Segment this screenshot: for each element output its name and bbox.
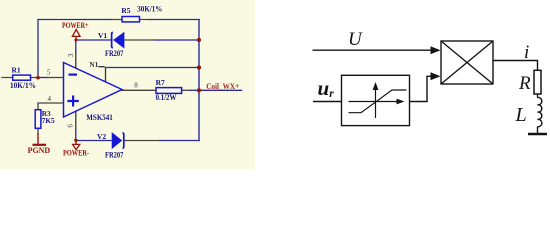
power ground PGND <box>37 133 39 144</box>
junction N1 net / right bus <box>197 65 201 69</box>
x axis arrowhead <box>397 99 405 105</box>
svg-text:5: 5 <box>47 69 51 77</box>
resistor R (right diagram) <box>534 70 541 94</box>
wire: coil bottom to ground <box>537 127 539 134</box>
pin stub: op-amp -IN pin 5 <box>47 77 64 79</box>
resistor R5 <box>122 17 140 22</box>
op-amp minus symbol <box>69 73 78 75</box>
wire: R3 bottom to ground <box>37 128 39 133</box>
svg-text:R: R <box>518 73 531 94</box>
pin stub: op-amp OUT pin 8 <box>122 89 156 91</box>
wire: V1 clamp net <box>76 39 112 41</box>
svg-text:10K/1%: 10K/1% <box>10 81 36 90</box>
arrowhead U into multiplier <box>431 46 441 54</box>
svg-text:3: 3 <box>67 53 75 57</box>
svg-text:MSK541: MSK541 <box>86 113 113 122</box>
wire: V2 net <box>76 140 111 142</box>
wire: output stub to Coil_WX+ <box>199 89 242 91</box>
multiplier box <box>441 41 493 84</box>
schematic sheet background <box>0 0 255 169</box>
svg-text:U: U <box>348 29 363 50</box>
power port POWER+ <box>75 36 77 40</box>
wire: saturation output up to multiplier <box>410 76 433 101</box>
pin stub: op-amp pin 6 (V-) <box>75 111 77 131</box>
svg-text:FR207: FR207 <box>105 151 123 160</box>
svg-text:L: L <box>515 104 527 126</box>
wire: non-inverting input net <box>38 103 64 110</box>
wire: R7 right pin to bus <box>182 89 190 91</box>
arrowhead saturation output into multiplier <box>431 72 441 80</box>
pin stubs of R5 <box>112 19 150 21</box>
svg-text:Coil_WX+: Coil_WX+ <box>206 82 239 91</box>
resistor R7 <box>156 88 182 94</box>
wire: u_r input line <box>313 101 342 103</box>
wire: POWER+ drop to pin 3 <box>75 40 77 52</box>
svg-text:7K5: 7K5 <box>42 117 55 125</box>
multiplier X diagonals <box>441 41 493 84</box>
pin stub: op-amp N1 pin <box>99 67 106 82</box>
junction at -IN node <box>36 76 40 80</box>
wire: R bottom to coil <box>537 94 539 98</box>
power port POWER- <box>75 141 77 145</box>
junction POWER- / V2 <box>74 139 77 142</box>
wire: right vertical bus <box>198 20 200 141</box>
y axis arrowhead <box>373 82 379 90</box>
svg-text:R5: R5 <box>121 6 130 15</box>
inductor L coil <box>538 97 542 126</box>
op-amp plus symbol <box>67 96 78 107</box>
svg-text:N1: N1 <box>89 60 98 69</box>
saturation block box <box>342 75 410 125</box>
junction V1 net / right bus <box>197 38 201 42</box>
svg-text:0.1/2W: 0.1/2W <box>156 93 177 102</box>
saturation curve <box>349 90 407 113</box>
svg-text:V2: V2 <box>97 132 106 141</box>
wire: U input line <box>313 49 433 51</box>
wire: pin 6 to V2 net <box>75 131 77 141</box>
ground bar <box>528 133 547 135</box>
pin stub: op-amp pin 3 (V+) <box>75 52 77 68</box>
svg-text:PGND: PGND <box>28 146 51 155</box>
op-amp U1 MSK541 triangle <box>64 63 123 118</box>
y axis <box>375 84 377 118</box>
diode V1 FR207 (pointing left, cathode bar left) <box>112 32 113 47</box>
junction output / right bus <box>197 88 201 92</box>
saturation block internals: axes <box>349 84 407 118</box>
svg-text:FR207: FR207 <box>105 49 123 58</box>
wire: feedback top net (left vertical + top run) <box>38 20 112 78</box>
svg-text:R7: R7 <box>156 78 165 87</box>
resistor R3 <box>35 110 41 129</box>
svg-text:ur: ur <box>318 76 335 100</box>
svg-text:8: 8 <box>134 82 138 90</box>
svg-text:30K/1%: 30K/1% <box>137 5 162 14</box>
junction POWER+ / V1 <box>74 39 77 42</box>
x axis <box>349 101 399 103</box>
svg-text:4: 4 <box>48 95 52 103</box>
svg-text:R1: R1 <box>12 66 21 75</box>
wire: input net to inverting input <box>2 77 36 79</box>
svg-text:V1: V1 <box>98 31 107 40</box>
wire: output i line to R <box>493 61 538 71</box>
svg-text:i: i <box>524 42 529 63</box>
resistor R1 <box>13 75 31 80</box>
diode V2 FR207 (pointing right, cathode bar right) <box>112 133 122 148</box>
wire: N1 compensation net <box>106 67 200 69</box>
svg-text:6: 6 <box>67 124 75 128</box>
svg-text:POWER+: POWER+ <box>62 21 89 30</box>
svg-text:POWER-: POWER- <box>63 149 89 158</box>
